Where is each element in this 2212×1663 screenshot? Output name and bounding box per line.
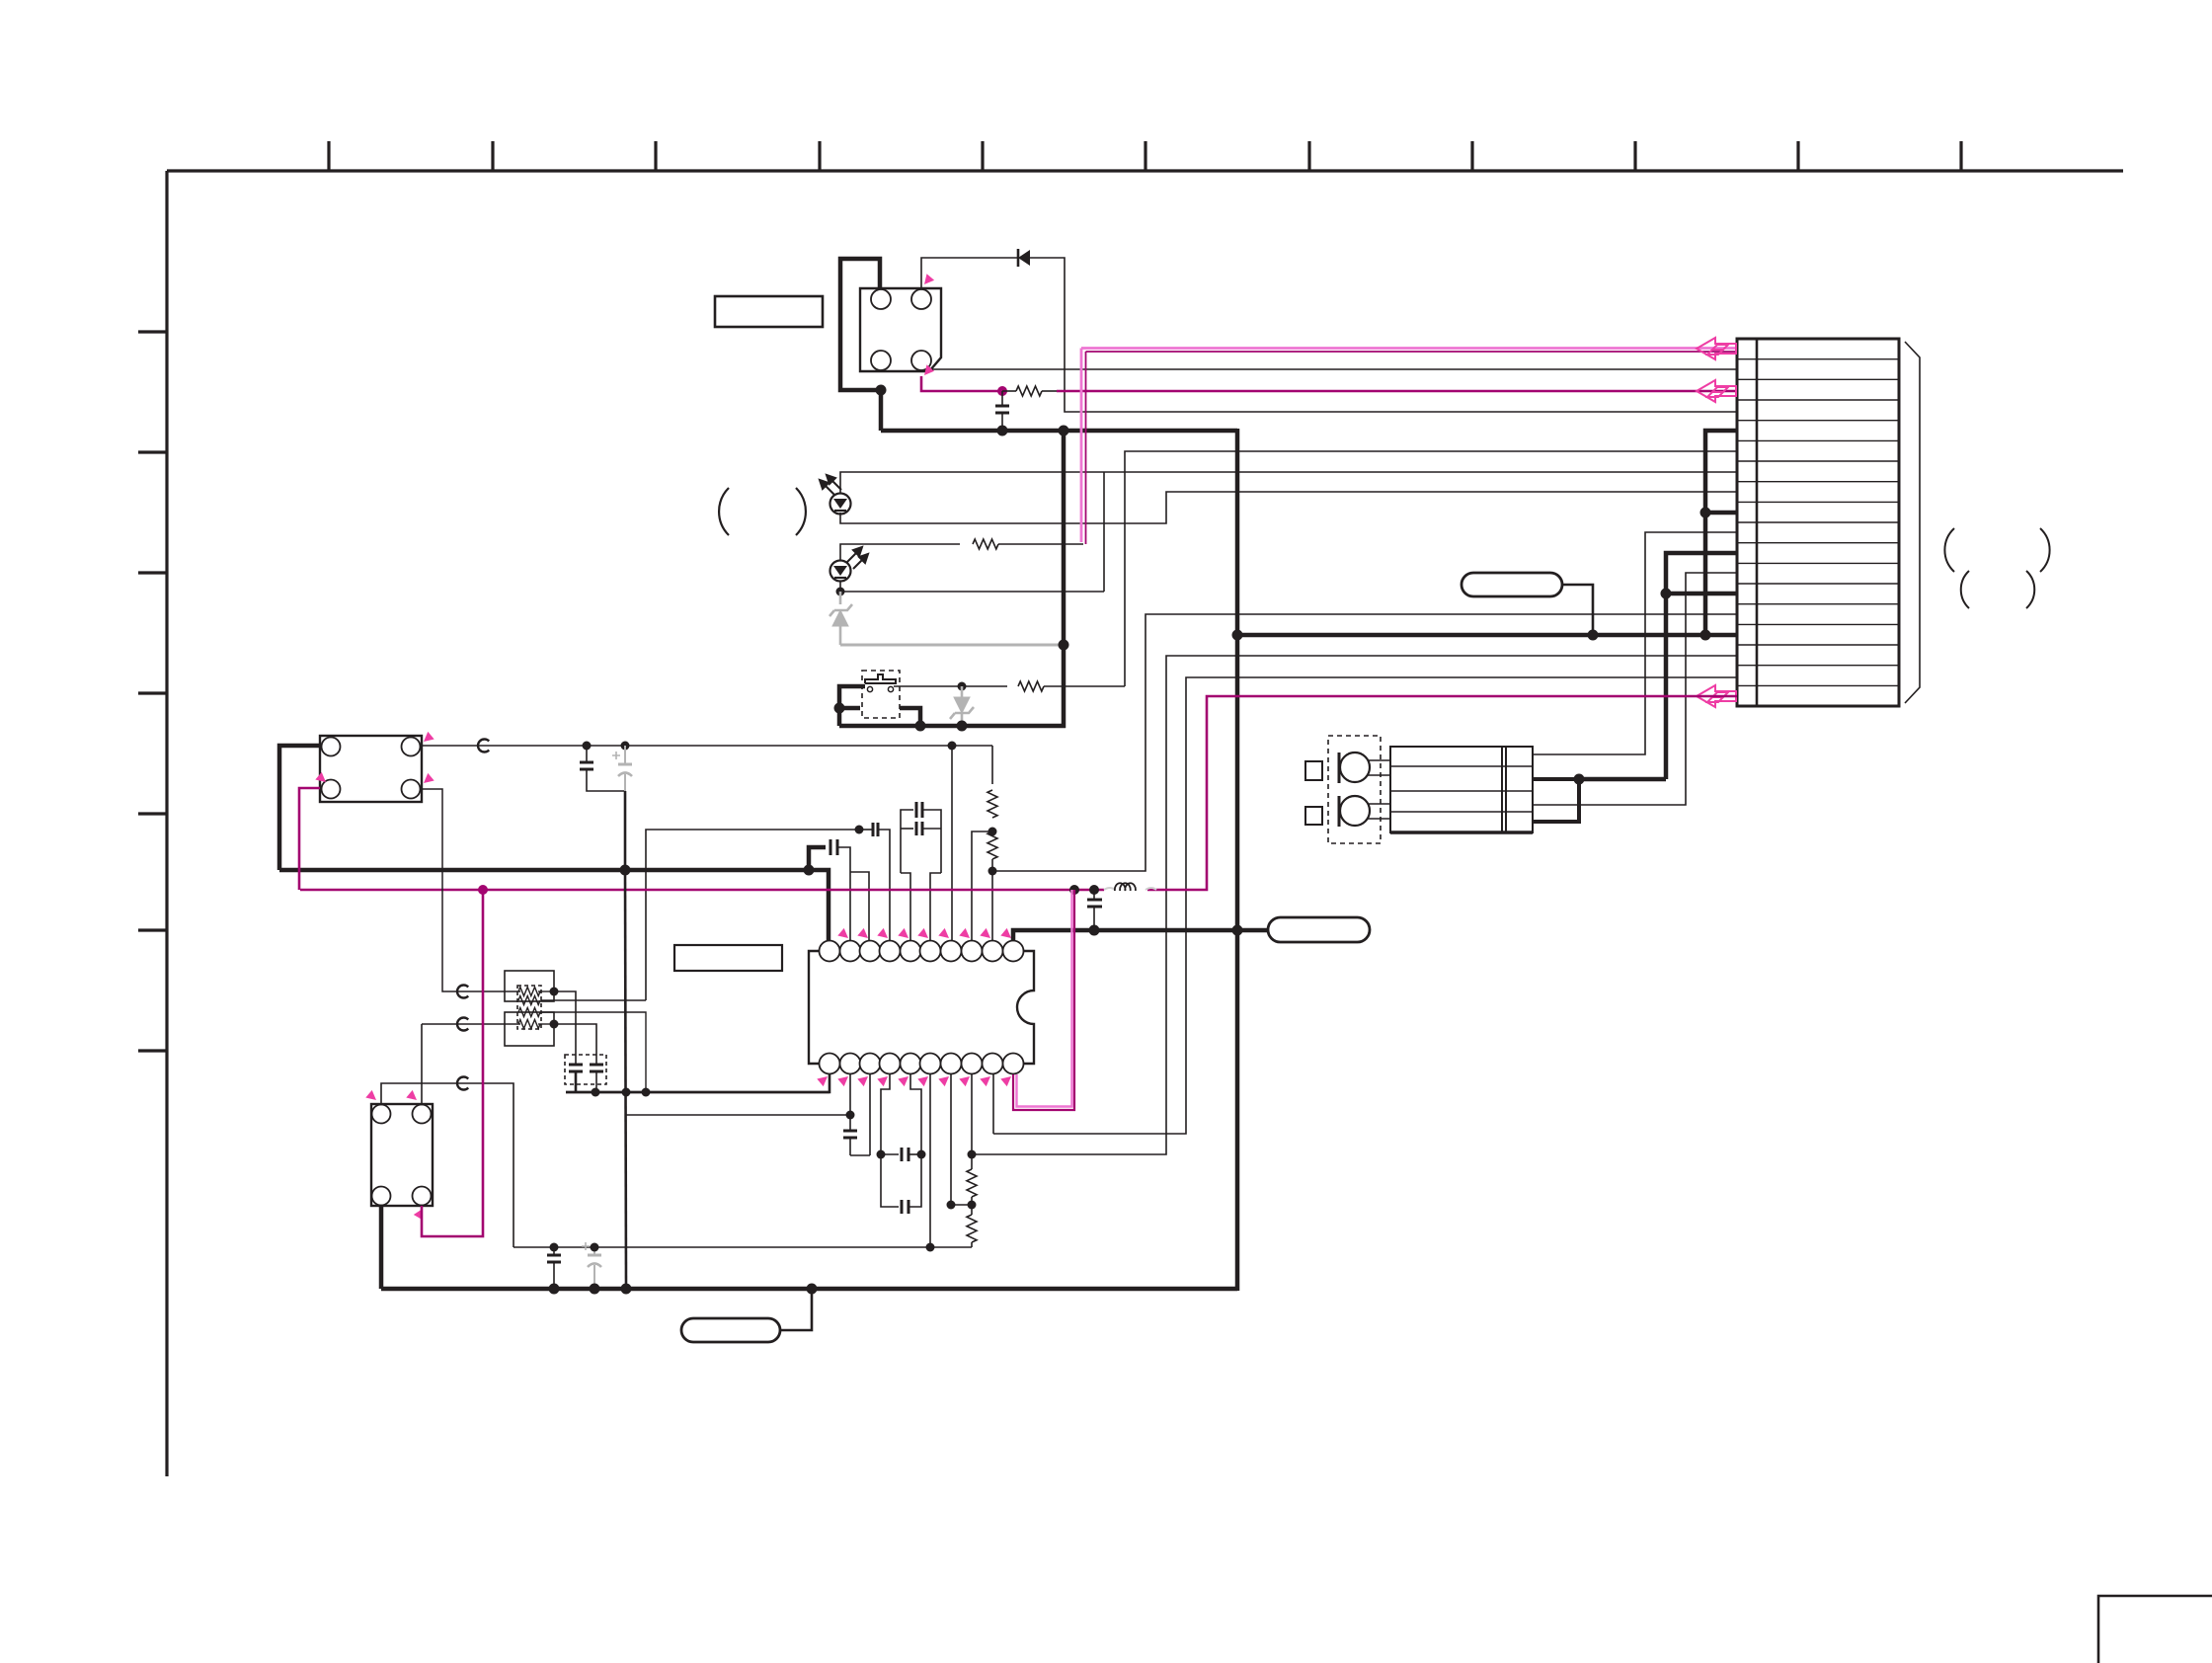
junction C8 on thick pin10 bus [1089, 925, 1100, 936]
switch S1 dashed box [862, 671, 900, 718]
pink arrow M2 BL [315, 772, 326, 782]
net label C mark r4 [457, 1018, 468, 1031]
gear block body [1390, 747, 1533, 832]
wire magenta M2 BL to rail [299, 788, 320, 890]
frame tick marks top [329, 141, 1961, 171]
junction pin6b on gnd sense [926, 1243, 935, 1252]
wire M1 thick supply loop [840, 259, 881, 431]
junction grey wire on thick branch [1059, 640, 1069, 651]
switch S1 button symbol [865, 674, 896, 683]
gnd sense wire y1263 [513, 1246, 972, 1248]
wire IC pin9 bottom [992, 1074, 994, 1134]
pink arrow M2 TR [424, 732, 434, 742]
inductor L1 [1104, 883, 1156, 891]
wire connector pin15 thick from riser x1253 [1237, 633, 1737, 638]
junction pin2b [846, 1111, 855, 1120]
wire thick M3 BL to gnd bus [379, 1206, 384, 1289]
junction switch left [834, 703, 845, 714]
pink arrow M3 BR [414, 1209, 423, 1220]
RP1 resistors [518, 988, 540, 996]
junction bus cap jog [804, 865, 815, 876]
title block corner box bottom right [2098, 1596, 2212, 1663]
connector CN1 body [1737, 339, 1899, 706]
motor M3 brush circles [372, 1105, 391, 1124]
resistor R2 [973, 539, 998, 549]
zener diode ZD1 grey [829, 592, 852, 645]
junction bus branch down [1059, 426, 1069, 436]
RP1 loop box A [505, 971, 554, 1001]
junction chain2 mid [968, 1201, 977, 1210]
junction pin13 [1661, 589, 1672, 599]
junction C14 top [550, 1243, 559, 1252]
junction C6 top [583, 742, 592, 751]
wire M3 TL to C net [381, 1083, 513, 1247]
junction rail x1108 [1089, 885, 1099, 895]
IC1 bottom pin circles [820, 1054, 1024, 1074]
junction cap loop right [917, 1150, 926, 1159]
pink arrow connector pin18 [1697, 685, 1736, 707]
wire r1 to cap C12 [554, 991, 576, 1057]
wire r2 row lead [541, 999, 646, 1001]
junction PH2 cathode [836, 588, 845, 596]
wire r2 riser to C3 and IC pin4 [646, 830, 859, 1000]
wire connector pin17 to IC pin9 bottom [993, 677, 1737, 1134]
junction switch bottom [915, 721, 926, 732]
junction R1 left node [997, 386, 1007, 396]
junction thick riser crossing [1232, 925, 1243, 936]
border frame left line [165, 171, 168, 1476]
wire net pin2b to left riser [626, 1114, 850, 1116]
wire caps to bus riser x633 [624, 791, 627, 870]
junction bus x633 [620, 865, 631, 876]
PH1 emission arrows [820, 475, 841, 495]
wire thick bus to IC pin1 [809, 870, 829, 941]
motor M2 body [320, 736, 422, 802]
junction r3 on mid bus [642, 1088, 651, 1097]
junction C3 left [855, 826, 864, 834]
wire C3 to IC pin4 [878, 830, 890, 941]
pink arrow connector pin1 [1697, 338, 1736, 359]
wire IC pin5 bottom to cap loop [910, 1074, 921, 1154]
sensor SW2 squares [1305, 761, 1322, 780]
wire PH2 cathode bottom [839, 581, 841, 592]
wire connector pin12 to gear block [1533, 573, 1737, 805]
wire chain bottom to IC pin9 [991, 871, 993, 941]
wire magenta connector pin18 to supply rail [1147, 696, 1737, 890]
junction pin7b [947, 1201, 956, 1210]
wire thick switch left [839, 686, 865, 726]
capacitor C14 [547, 1254, 561, 1257]
frame tick marks left [138, 332, 167, 1051]
wire IC pin3 riser [850, 872, 869, 941]
wire thick block to pin11/13 riser [1579, 777, 1666, 782]
capacitor C7 electrolytic grey [612, 746, 632, 791]
wire IC pin8 bottom to chain2 [971, 1074, 973, 1154]
junction C14 gnd [549, 1284, 560, 1295]
junction pin15 at riser [1232, 630, 1243, 641]
sensor SW2 dashed box [1328, 736, 1381, 843]
IC1 pink pin arrows bottom [817, 1076, 1011, 1086]
wire connector pin14 to resistor chain bottom [992, 614, 1737, 871]
net pill label P1 [1268, 917, 1370, 942]
resistor R3 [1018, 681, 1044, 691]
wire R3 riser to connector pin6 [1125, 451, 1737, 686]
wire gear block row2 row4 thick tie [1533, 779, 1579, 822]
pink arrow connector pin3 [1697, 380, 1736, 402]
capacitor pair C4 C5 loop [901, 810, 913, 873]
wire M2 BR pin down to r1 row [422, 789, 520, 991]
photo interrupter PH2 LED [830, 561, 851, 582]
RP1 dashed body [517, 986, 541, 1029]
wire PH1/PH2 common riser [1103, 472, 1105, 592]
motor M1 brush circles [871, 289, 891, 309]
junction pin9 riser [1700, 508, 1711, 518]
connector CN1 bracket [1905, 342, 1920, 703]
junction P2 on pin15 net [1588, 630, 1599, 641]
wire thick riser x1253 bus to bottom bus [1235, 429, 1240, 1291]
junction pill P3 gnd [807, 1284, 818, 1295]
wire IC pin7 riser [951, 746, 953, 941]
wire connector pin10 to gear block [1533, 532, 1737, 754]
wire r4 net to motor M3 TR [421, 1024, 423, 1104]
zener diode ZD2 grey [950, 686, 974, 726]
wire connector pin16 to chain top node [972, 656, 1737, 1154]
capacitor C9 [843, 1130, 857, 1133]
wire cap pair to IC pin6 riser top [930, 873, 941, 941]
wire r4 row [422, 1023, 520, 1025]
wire cap pair to IC pin5 [901, 873, 910, 941]
pink arrow at M1 BR pin [924, 364, 934, 375]
pink arrow M3 TR [406, 1090, 417, 1100]
net label C mark M3 [457, 1077, 468, 1090]
wire thick vertical branch x1077 [1062, 431, 1066, 728]
sensor SW2 contacts [1338, 752, 1341, 783]
junction block thick [1574, 774, 1585, 785]
wire IC pin7 bottom [950, 1074, 952, 1205]
wire thick bus left motors to IC [279, 868, 809, 873]
wire IC pin6 bottom long drop [929, 1074, 931, 1247]
diode D1 [1018, 250, 1030, 266]
wire diode D1 to connector pin4 [1030, 258, 1737, 412]
capacitor C2 [829, 839, 832, 855]
wire IC pin3 bottom [869, 1074, 871, 1155]
wire magenta M1 BR to resistor R1 net [921, 376, 1002, 391]
wire pill P3 lead [780, 1289, 812, 1330]
resistor R1 [1016, 386, 1042, 396]
capacitor C13 [590, 1064, 603, 1067]
capacitor C10 [881, 1153, 899, 1155]
wire magenta supply rail [300, 889, 1104, 892]
wire chain mid to IC pin8 [972, 831, 992, 941]
junction IC pin7 riser [948, 742, 957, 751]
wire pink highlight connector pin1 [1081, 347, 1737, 350]
wire IC pin1 bottom to mid bus [566, 1074, 829, 1092]
junction r4 right [550, 1020, 559, 1029]
wire PH1 anode loop top to pin7 [840, 472, 1737, 494]
junction C15 gnd [590, 1284, 600, 1295]
parentheses annotation right of CN1 [1944, 528, 1954, 572]
motor M2 brush circles [322, 738, 341, 756]
wire pink highlight pin1 riser to R2 [1080, 349, 1083, 543]
pink arrow at M1 TR pin [924, 274, 934, 284]
wire M1 TR pin to diode D1 [921, 258, 1017, 288]
wire thick switch bottom run [839, 724, 1066, 729]
pink arrow M3 TL [365, 1090, 376, 1100]
RP1 loop box B [505, 1012, 554, 1046]
capacitor C11 loop [881, 1154, 899, 1207]
wire magenta M3 BR to rail riser [422, 890, 483, 1236]
capacitor C15 electrolytic grey [582, 1242, 601, 1289]
motor M1 label box [715, 296, 823, 327]
capacitor C3 [872, 823, 875, 836]
wire M1 chamfer pin to connector pin2 [932, 368, 1737, 370]
wire PH2 anode loop top to resistor R2 [840, 544, 960, 561]
junction rail x489 [478, 885, 488, 895]
thick bottom ground bus [381, 1287, 1237, 1292]
junction rail x1088 [1069, 885, 1079, 895]
wire connector pin5 thick stub [1705, 431, 1737, 635]
junction C7 top [621, 742, 630, 751]
wire pill P2 lead [1562, 585, 1593, 635]
resistor chain R4 R5 [991, 746, 993, 784]
net label C mark r1 [457, 986, 468, 998]
wire IC pin4 bottom to cap loop [881, 1074, 890, 1154]
IC1 label box [674, 945, 782, 971]
wire thick bus M1 to right riser [881, 429, 1237, 434]
motor M3 body [371, 1104, 433, 1206]
resistor R6 [967, 1169, 977, 1197]
junction C1 on bus [997, 426, 1008, 436]
dashed cap box C12 C13 [565, 1055, 606, 1084]
IC1 pink pin arrows top [837, 928, 1011, 938]
wire motor M2 sense net [422, 745, 992, 747]
junction x633 riser mid bus [622, 1088, 631, 1097]
IC1 top pin circles [820, 941, 1024, 962]
junction C13 on mid bus [592, 1088, 600, 1097]
wire r3 row drop [541, 1012, 646, 1092]
sensor SW2 leads [1368, 759, 1390, 761]
wire thick switch right to ground run [900, 708, 920, 726]
junction chain bottom [988, 867, 997, 876]
motor M1 body [860, 288, 941, 371]
capacitor C8 [1093, 890, 1095, 900]
border frame top line [167, 169, 2123, 172]
junction ZD2 top [958, 682, 967, 691]
junction cap loop left [877, 1150, 886, 1159]
net pill label P2 [1461, 573, 1562, 596]
wire thick M2 TL to bus [279, 746, 320, 870]
wire magenta R1 to connector pin3 [1057, 390, 1737, 393]
wire switch output [894, 685, 1007, 687]
op IC1 body [809, 951, 1034, 1064]
wire grey ZD1 to thick branch [840, 644, 1064, 647]
capacitor C6 [586, 746, 588, 762]
net label C mark [478, 740, 489, 752]
wire PH2 bottom loop [840, 591, 1104, 593]
junction M1 bottom [876, 385, 887, 396]
junction pin15 riser [1700, 630, 1711, 641]
capacitor C12 [569, 1064, 583, 1067]
wire IC pin2 bottom cap C9 [849, 1074, 851, 1115]
wire connector pin9 thick stub [1705, 511, 1737, 515]
wire thick IC pin10 to pill label [1013, 930, 1268, 941]
parentheses annotation left of PH1 [719, 488, 729, 535]
junction C15 top [591, 1243, 599, 1252]
photo interrupter PH1 LED [830, 494, 851, 515]
capacitor C1 [1001, 391, 1003, 406]
pink arrow M2 BR [424, 773, 434, 783]
junction chain mid [988, 828, 997, 836]
wire magenta IC pin10 bottom to rail riser [1017, 890, 1072, 1107]
junction ZD2 bottom [957, 721, 968, 732]
resistor R7 [967, 1215, 977, 1242]
wire r4 to cap C13 [554, 1024, 596, 1057]
junction r1 right [550, 988, 559, 996]
net pill label P3 [681, 1318, 780, 1342]
wire riser x633 long [625, 870, 626, 1289]
wire C2 to IC pin2 [837, 847, 850, 941]
wire thick bus jog to C2 [809, 847, 826, 870]
wire connector pin13 thick stub [1666, 592, 1737, 596]
wire connector pin11 thick [1666, 553, 1737, 779]
PH2 emission arrows [847, 547, 868, 569]
junction riser x633 gnd [621, 1284, 632, 1295]
wire PH1 cathode loop bottom [840, 492, 1737, 523]
junction chain2 top [968, 1150, 977, 1159]
mid bus wire [566, 1091, 829, 1094]
